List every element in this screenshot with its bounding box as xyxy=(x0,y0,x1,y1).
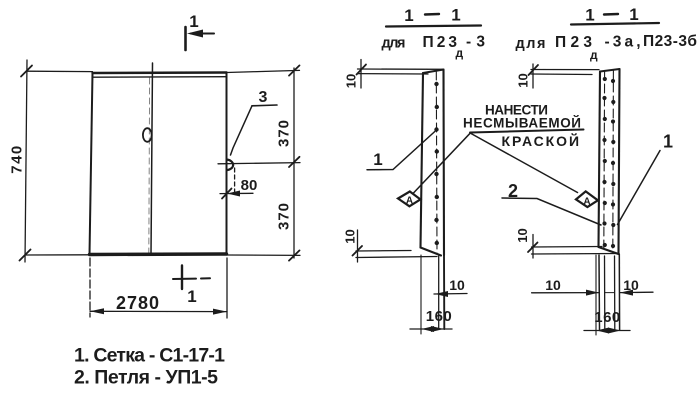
svg-text:10: 10 xyxy=(545,277,561,293)
svg-text:1: 1 xyxy=(189,12,198,31)
svg-text:НЕСМЫВАЕМОЙ: НЕСМЫВАЕМОЙ xyxy=(463,116,581,131)
note underline xyxy=(470,130,584,133)
dimension 10 bottom section 2 xyxy=(515,228,618,258)
svg-text:КРАСКОЙ: КРАСКОЙ xyxy=(502,132,580,149)
section title 1-1 right xyxy=(571,5,659,25)
svg-text:для: для xyxy=(382,36,406,52)
dimension 10 tail right section 2 xyxy=(605,277,653,296)
leader to diamond 2 xyxy=(471,134,578,193)
svg-text:2780: 2780 xyxy=(116,293,160,313)
subtitle for P23d-3 xyxy=(382,34,486,61)
svg-text:А: А xyxy=(406,196,413,207)
dimension 80 xyxy=(220,168,257,199)
callout 1 right section xyxy=(618,132,674,225)
lifting loop 2 on seam xyxy=(143,128,152,142)
leader to diamond 1 xyxy=(413,133,471,194)
mesh line with bar dots section 1 xyxy=(434,71,439,253)
svg-text:1. Сетка - С1-17-1: 1. Сетка - С1-17-1 xyxy=(74,345,225,367)
svg-text:1: 1 xyxy=(585,6,594,25)
svg-text:для: для xyxy=(516,36,546,52)
svg-text:-3а,: -3а, xyxy=(605,34,641,51)
svg-text:10: 10 xyxy=(343,229,358,243)
section 1 panel edges xyxy=(421,70,445,256)
tail lines section 2 left pair xyxy=(598,255,601,330)
svg-text:160: 160 xyxy=(594,309,621,326)
lifting loop 3 on right edge xyxy=(227,160,234,171)
svg-text:-3: -3 xyxy=(466,34,485,51)
svg-text:1: 1 xyxy=(187,287,196,306)
svg-text:1: 1 xyxy=(663,132,673,152)
svg-text:1: 1 xyxy=(451,6,460,25)
dimension 10 tail left section 2 xyxy=(532,277,599,296)
mesh line right with bar dots section 2 xyxy=(611,70,616,252)
svg-text:1: 1 xyxy=(404,6,413,25)
svg-text:1: 1 xyxy=(373,150,382,169)
svg-text:П23: П23 xyxy=(555,34,592,51)
svg-text:10: 10 xyxy=(623,277,639,293)
svg-text:10: 10 xyxy=(516,73,531,87)
svg-text:370: 370 xyxy=(276,119,293,147)
svg-text:740: 740 xyxy=(9,144,26,174)
mark A diamond 2 xyxy=(576,191,598,207)
callout 3 xyxy=(231,89,278,155)
svg-text:П23: П23 xyxy=(423,34,458,51)
mark A diamond 1 xyxy=(398,192,420,207)
subtitle for P23d-3a P23-3b xyxy=(516,33,698,62)
panel top inner line xyxy=(94,76,227,79)
svg-text:д: д xyxy=(456,46,464,60)
svg-text:3: 3 xyxy=(259,89,268,106)
dimension 740 xyxy=(9,60,93,262)
callout 1 left section xyxy=(367,130,437,170)
section 2 panel edges xyxy=(599,69,620,254)
svg-text:А: А xyxy=(583,197,590,208)
dimension 370 plus 370 right xyxy=(218,65,300,260)
section mark 1 bottom xyxy=(173,266,210,307)
note text nanesti nesmyvaemoi kraskoi xyxy=(463,103,581,150)
dimension 160 section 1 xyxy=(410,255,452,334)
dimension 10 top section 1 xyxy=(344,60,444,89)
dimension 10 top section 2 xyxy=(516,64,600,88)
panel outline xyxy=(90,73,227,255)
svg-text:П23-3б: П23-3б xyxy=(643,33,697,50)
svg-text:10: 10 xyxy=(515,228,530,242)
callout 2 xyxy=(502,181,601,225)
svg-text:10: 10 xyxy=(449,277,465,293)
section mark 1 top xyxy=(186,12,215,50)
svg-text:1: 1 xyxy=(629,5,638,24)
svg-text:80: 80 xyxy=(241,177,258,194)
svg-text:160: 160 xyxy=(426,308,453,325)
dimension 10 bottom section 1 xyxy=(343,229,438,262)
svg-text:2. Петля - УП1-5: 2. Петля - УП1-5 xyxy=(74,367,218,389)
section title 1-1 left xyxy=(386,6,481,27)
tail lines section 2 right pair xyxy=(614,256,616,330)
svg-text:370: 370 xyxy=(276,202,293,230)
svg-text:10: 10 xyxy=(344,74,359,88)
dimension 160 section 2 xyxy=(584,255,630,335)
dimension 2780 xyxy=(90,258,227,318)
svg-text:д: д xyxy=(590,48,598,62)
panel seam line xyxy=(151,63,153,255)
mesh line left with bar dots section 2 xyxy=(602,71,607,250)
dimension 10 tail width section 1 xyxy=(434,277,467,297)
tail lines section 1 xyxy=(438,256,440,329)
